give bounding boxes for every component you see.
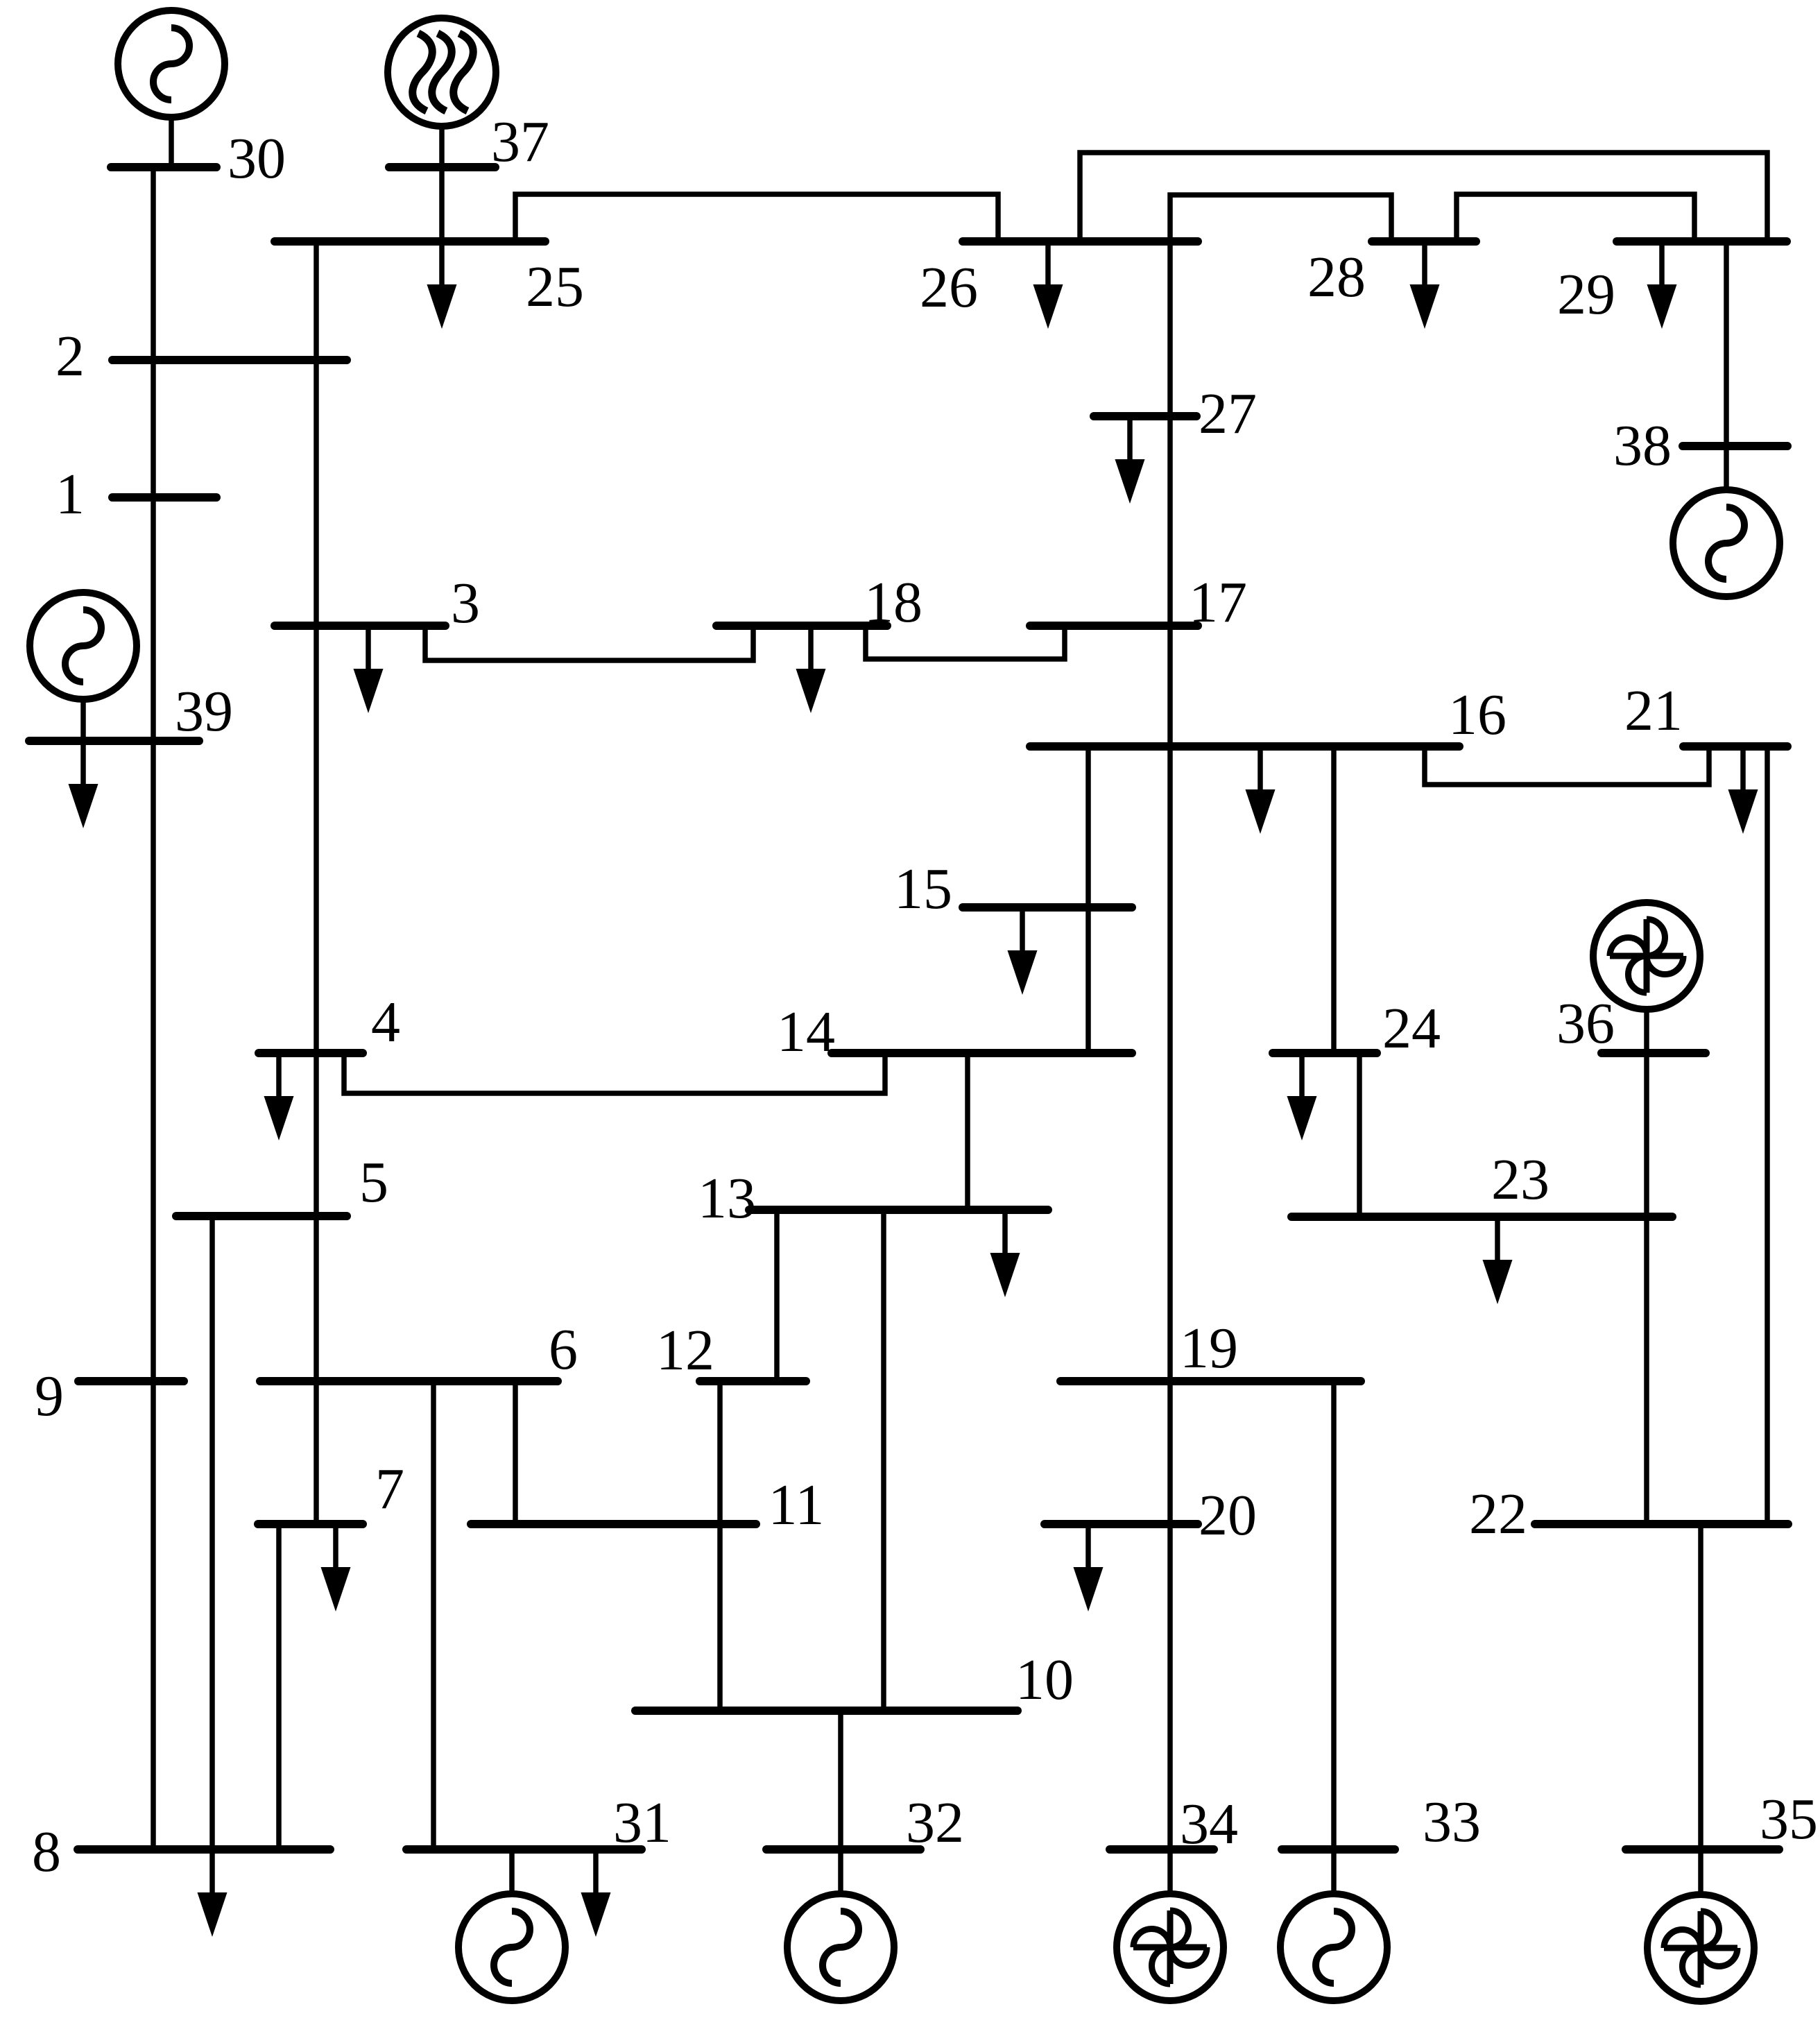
load at bus 7 — [321, 1524, 351, 1611]
svg-text:14: 14 — [777, 1000, 835, 1064]
svg-text:30: 30 — [227, 126, 286, 191]
wire 6-11 — [513, 1381, 518, 1524]
bus 21 — [1683, 742, 1787, 751]
svg-text:11: 11 — [769, 1473, 825, 1537]
generator G38 (bus 38): sync — [1673, 446, 1780, 597]
load at bus 8 — [198, 1849, 227, 1937]
bus 8 — [78, 1845, 330, 1854]
wire 12-11 — [717, 1381, 723, 1524]
svg-text:7: 7 — [375, 1457, 404, 1521]
bus 17 — [1030, 622, 1198, 630]
bus 10 — [635, 1707, 1018, 1715]
svg-text:36: 36 — [1556, 991, 1615, 1056]
wire 17-16 — [1167, 626, 1173, 746]
svg-text:17: 17 — [1189, 570, 1247, 635]
svg-text:13: 13 — [698, 1166, 756, 1231]
bus 11 — [471, 1520, 756, 1528]
generator G35 (bus 35): wind — [1647, 1849, 1754, 2001]
wire 26-29 — [1080, 153, 1767, 241]
wire 14-13 — [965, 1053, 970, 1210]
svg-text:19: 19 — [1180, 1316, 1238, 1380]
bus 24 — [1273, 1049, 1377, 1057]
svg-text:24: 24 — [1382, 996, 1441, 1061]
wire 6-31 — [431, 1381, 436, 1849]
wire 30-2 — [151, 167, 156, 360]
wire 23-22 — [1644, 1217, 1649, 1524]
load at bus 21 — [1728, 746, 1758, 834]
bus 9 — [78, 1377, 184, 1385]
bus 29 — [1617, 237, 1787, 246]
wire 19-20 — [1167, 1381, 1173, 1524]
wire 24-23 — [1357, 1053, 1362, 1217]
generator G30 (bus 30): sync — [118, 10, 225, 167]
bus 38 — [1683, 442, 1787, 450]
generator G39 (bus 39): sync — [30, 592, 137, 741]
wire 16-19 — [1167, 746, 1173, 1381]
wire 5-6 — [314, 1216, 319, 1381]
bus 37 — [389, 163, 495, 171]
load at bus 20 — [1074, 1524, 1104, 1611]
wire 11-10 — [717, 1524, 723, 1711]
generator G32 (bus 32): sync — [787, 1849, 894, 2001]
bus 7 — [258, 1520, 363, 1528]
svg-text:10: 10 — [1015, 1648, 1074, 1712]
svg-text:21: 21 — [1624, 678, 1683, 743]
wire 19-33 — [1331, 1381, 1337, 1849]
svg-text:4: 4 — [371, 990, 400, 1054]
svg-text:35: 35 — [1760, 1787, 1818, 1852]
svg-text:22: 22 — [1469, 1482, 1527, 1546]
wire 1-39 — [151, 494, 156, 741]
load at bus 29 — [1647, 241, 1677, 329]
bus 36 — [1602, 1049, 1706, 1057]
bus 31 — [406, 1845, 642, 1854]
svg-text:37: 37 — [491, 110, 549, 174]
svg-text:39: 39 — [175, 679, 233, 744]
wire 29-38 — [1724, 241, 1729, 446]
svg-text:34: 34 — [1180, 1792, 1238, 1856]
bus 4 — [259, 1049, 363, 1057]
wire 13-10 — [881, 1210, 886, 1711]
generator G36 (bus 36): wind — [1593, 903, 1700, 1053]
bus 5 — [176, 1212, 347, 1220]
wire 22-35 — [1698, 1524, 1703, 1849]
svg-text:38: 38 — [1613, 413, 1672, 478]
wire 16-24 — [1331, 746, 1337, 1053]
wire 2-1 — [151, 360, 156, 494]
load at bus 39 — [69, 741, 98, 828]
bus 27 — [1094, 412, 1196, 420]
bus 18 — [716, 622, 887, 630]
svg-text:18: 18 — [864, 570, 922, 635]
svg-text:23: 23 — [1491, 1147, 1549, 1212]
bus 19 — [1061, 1377, 1361, 1385]
load at bus 3 — [354, 626, 384, 713]
wire 5-8 — [209, 1216, 215, 1849]
wire 2-3 — [314, 360, 319, 626]
svg-text:8: 8 — [32, 1820, 61, 1884]
bus 12 — [700, 1377, 806, 1385]
load at bus 13 — [990, 1210, 1020, 1297]
svg-text:20: 20 — [1199, 1483, 1257, 1548]
generator G37 (bus 37): thermal — [388, 18, 496, 167]
load at bus 23 — [1483, 1217, 1513, 1304]
wire 4-5 — [314, 1053, 319, 1216]
bus 34 — [1110, 1845, 1214, 1854]
generator G31 (bus 31): sync — [458, 1849, 565, 2001]
wire 26-27 — [1167, 241, 1173, 416]
svg-text:31: 31 — [613, 1790, 671, 1855]
wire 26-28 — [1170, 195, 1391, 241]
wire 25-2 — [314, 241, 319, 360]
svg-text:12: 12 — [656, 1318, 714, 1383]
svg-text:32: 32 — [906, 1790, 964, 1855]
wire 10-32 — [838, 1711, 843, 1849]
wire 4-14 — [344, 1053, 885, 1093]
svg-text:16: 16 — [1448, 683, 1506, 747]
load at bus 16 — [1246, 746, 1276, 834]
generator G33 (bus 33): sync — [1280, 1849, 1387, 2001]
bus 6 — [260, 1377, 558, 1385]
wire 39-9 — [151, 741, 156, 1381]
bus 35 — [1626, 1845, 1779, 1854]
bus 30 — [111, 163, 216, 171]
wire 3-18 — [425, 626, 753, 660]
wire 7-8 — [276, 1524, 282, 1849]
wire 28-29 — [1457, 194, 1694, 241]
svg-text:33: 33 — [1423, 1790, 1481, 1854]
wire 25-26 — [515, 194, 998, 241]
load at bus 27 — [1115, 416, 1145, 504]
svg-text:15: 15 — [894, 857, 952, 921]
bus 13 — [749, 1206, 1048, 1214]
bus 26 — [963, 237, 1198, 246]
wire 13-12 — [774, 1210, 780, 1381]
wire 27-17 — [1167, 416, 1173, 626]
svg-text:5: 5 — [359, 1150, 388, 1215]
svg-text:1: 1 — [55, 462, 85, 527]
wire 16-15 — [1085, 746, 1091, 907]
wire 9-8 — [151, 1381, 156, 1849]
wire 36-23 — [1644, 1053, 1649, 1217]
svg-text:3: 3 — [451, 571, 480, 635]
load at bus 24 — [1287, 1053, 1317, 1140]
svg-text:29: 29 — [1557, 262, 1615, 327]
wire 20-34 — [1167, 1524, 1173, 1849]
bus 16 — [1030, 742, 1459, 751]
wire 18-17 — [866, 626, 1065, 659]
load at bus 15 — [1008, 907, 1038, 995]
load at bus 4 — [264, 1053, 294, 1140]
bus 33 — [1282, 1845, 1395, 1854]
svg-text:2: 2 — [55, 324, 85, 388]
svg-text:9: 9 — [35, 1364, 64, 1428]
wire 16-21 — [1425, 746, 1709, 785]
bus 39 — [29, 737, 199, 745]
load at bus 31 — [581, 1849, 611, 1937]
bus 32 — [766, 1845, 920, 1854]
bus 25 — [275, 237, 545, 246]
bus 14 — [832, 1049, 1132, 1057]
wire 6-7 — [314, 1381, 319, 1524]
wire 3-4 — [314, 626, 319, 1053]
generator G34 (bus 34): wind — [1117, 1849, 1224, 2001]
load at bus 18 — [796, 626, 826, 713]
load at bus 26 — [1033, 241, 1063, 329]
svg-text:6: 6 — [549, 1317, 578, 1382]
load at bus 28 — [1410, 241, 1440, 329]
bus 15 — [963, 903, 1132, 912]
svg-text:25: 25 — [526, 255, 584, 319]
bus 1 — [112, 493, 216, 502]
load at bus 25 — [427, 241, 457, 329]
bus 20 — [1045, 1520, 1198, 1528]
bus 22 — [1535, 1520, 1788, 1528]
bus 28 — [1372, 237, 1476, 246]
bus 2 — [112, 356, 347, 364]
svg-text:27: 27 — [1199, 382, 1257, 446]
bus 23 — [1291, 1213, 1672, 1221]
wire 37-25 — [439, 167, 445, 241]
svg-text:26: 26 — [920, 255, 978, 320]
wire 21-22 — [1765, 746, 1770, 1524]
svg-text:28: 28 — [1307, 245, 1366, 309]
wire 15-14 — [1085, 907, 1091, 1053]
bus 3 — [275, 622, 445, 630]
